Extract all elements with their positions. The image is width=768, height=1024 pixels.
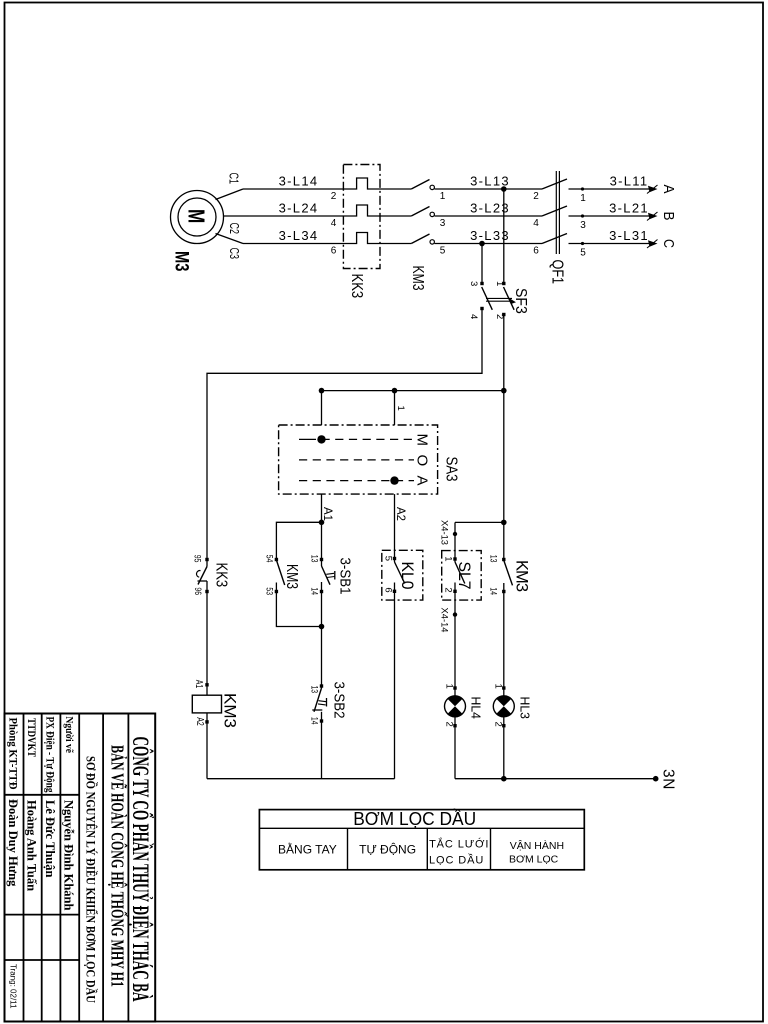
lamp HL4 pin 1 [453,686,456,689]
coil pin A2 [205,720,208,723]
svg-text:HL3: HL3 [518,697,533,719]
SF3 linkage [486,297,512,299]
node A1 [321,494,323,522]
wire C2 [224,205,412,216]
svg-text:TTDVKT: TTDVKT [25,718,39,757]
contactor KM3 pole 3 [411,234,429,244]
wire SF3 pole a to KK3 contact [207,309,482,567]
svg-text:4: 4 [468,314,479,319]
svg-text:2: 2 [442,587,453,592]
svg-text:B: B [660,212,677,221]
svg-text:2: 2 [443,722,454,727]
svg-text:3-L14: 3-L14 [279,174,319,189]
svg-text:1: 1 [440,191,446,202]
svg-text:Người vẽ: Người vẽ [63,717,75,754]
SF3 pin 2 [502,313,505,316]
wire C3 diagonal [216,234,244,244]
junction at SA3 right feed [392,388,398,394]
selector switch SA3 box [279,425,438,494]
breaker QF1 pole 1 [542,179,567,189]
legend table [259,810,584,870]
aux contact KM3 blade (right) [504,560,513,585]
svg-text:VẬN HÀNH: VẬN HÀNH [510,839,564,852]
wire 3-L34 [243,233,411,244]
svg-text:6: 6 [331,246,337,257]
breaker QF1 pole 3 [542,234,567,244]
svg-text:3-SB1: 3-SB1 [337,558,353,595]
svg-text:KK3: KK3 [348,274,365,299]
wire from 3-L33 to SF3 pole a [481,244,483,285]
motor M3 [171,191,224,244]
svg-text:95: 95 [192,555,203,563]
svg-text:M: M [414,434,431,447]
svg-text:13: 13 [487,555,498,563]
wire bus branch to SL7 [455,521,504,523]
svg-text:1: 1 [443,684,454,689]
svg-text:CÔNG TY CỔ PHẦN THUỶ ĐIỆN THÁC: CÔNG TY CỔ PHẦN THUỶ ĐIỆN THÁC BÀ [128,737,154,1002]
svg-text:Lê Đức Thuận: Lê Đức Thuận [43,800,57,877]
svg-text:PX Điện - Tự Động: PX Điện - Tự Động [44,717,56,793]
title block row lines [5,794,80,796]
svg-text:TỰ ĐỘNG: TỰ ĐỘNG [359,842,416,857]
terminal X4-14 [453,612,457,616]
svg-text:Trang: 02/11: Trang: 02/11 [9,964,18,1009]
wire junction to 3-SB2 [321,627,323,689]
svg-text:1: 1 [395,406,406,411]
svg-text:13: 13 [308,555,319,563]
svg-text:3-L31: 3-L31 [609,228,649,243]
pushbutton 3-SB2 actuator [319,701,327,702]
coil pin A1 [205,683,208,686]
svg-text:C3: C3 [227,248,241,260]
svg-text:1: 1 [442,556,453,561]
SL7 blade [455,562,465,584]
svg-text:5: 5 [382,556,393,561]
control bus top [322,390,504,392]
svg-text:KM3: KM3 [409,266,426,291]
wire KL0 to bottom bus [394,583,396,779]
svg-text:Đoàn Duy Hưng: Đoàn Duy Hưng [6,799,20,887]
svg-text:3: 3 [468,281,479,286]
contactor KM3 pole 1 [411,180,429,190]
svg-text:SƠ ĐỒ NGUYÊN LÝ ĐIỀU KHIỂN BƠM: SƠ ĐỒ NGUYÊN LÝ ĐIỀU KHIỂN BƠM LỌC DẦU [84,756,99,1003]
wire bus to SA3 left [321,391,323,425]
title block column lines [23,714,25,1022]
SA3 position row M [299,438,316,440]
svg-text:HL4: HL4 [469,697,484,719]
svg-text:A: A [414,476,431,486]
svg-text:53: 53 [263,587,274,595]
SL7 pin 1 [453,557,456,560]
SA3 position row O [299,459,414,461]
svg-text:5: 5 [580,248,586,259]
KL0 blade [395,562,405,584]
aux contact KM3 blade [276,560,284,585]
arrow phase A [648,186,658,192]
svg-text:54: 54 [263,555,274,563]
wire 3-L21 [569,215,653,217]
lamp HL3 pin 2 [502,724,505,727]
SF3 pin 1 [502,282,505,285]
svg-text:O: O [414,455,431,467]
wire 3-L13 [435,188,543,190]
coil KM3 [192,695,221,713]
lamp HL3 pin 1 [502,686,505,689]
svg-text:QF1: QF1 [549,260,566,285]
svg-text:A: A [660,185,677,194]
pushbutton 3-SB1 actuator [326,573,334,574]
terminal 5 after QF1 [581,242,584,245]
arrow phase B [648,213,658,219]
relay contact KL0 box [382,550,423,600]
svg-text:TẮC LƯỚI: TẮC LƯỚI [429,838,489,851]
wire 3-SB1 to junction [321,582,323,627]
svg-text:14: 14 [487,587,498,595]
svg-text:14: 14 [308,717,319,725]
terminal X4-13 [453,532,457,536]
terminal 1 after QF1 [581,187,584,190]
SF3 pin 3 [480,282,483,285]
svg-text:1: 1 [492,684,503,689]
svg-text:M: M [184,209,210,223]
svg-text:3-L34: 3-L34 [279,228,319,243]
wire from 3-L13 to SF3 pole b [503,189,505,284]
wire 3-L23 [435,215,543,217]
svg-text:Phòng KT-TTĐ: Phòng KT-TTĐ [7,718,19,790]
svg-text:3: 3 [580,220,586,231]
arrow phase C [648,240,658,246]
svg-text:X4-13: X4-13 [440,520,450,545]
wire 3-L14 [243,178,411,189]
wire 3-L11 [569,188,653,190]
svg-text:14: 14 [308,587,319,595]
KL0 pin 5 [393,557,396,560]
wire HL3 to bottom bus [503,717,505,779]
svg-text:1: 1 [494,281,505,286]
svg-text:A1: A1 [193,680,204,689]
svg-text:3N: 3N [660,769,677,790]
KM3 aux branch top wire [276,522,321,560]
svg-text:BƠM LỌC DẦU: BƠM LỌC DẦU [353,808,476,829]
svg-text:6: 6 [533,246,539,257]
svg-text:4: 4 [533,218,539,229]
lamp HL3 [493,696,514,717]
svg-text:KL0: KL0 [398,562,416,590]
svg-text:KM3: KM3 [513,560,531,592]
svg-text:96: 96 [192,587,203,595]
wire SL7 to X4-14 [454,583,456,697]
svg-text:3-SB2: 3-SB2 [331,682,347,719]
svg-text:Nguyễn Đình Khánh: Nguyễn Đình Khánh [62,800,76,911]
svg-text:A1: A1 [321,507,335,521]
svg-text:SA3: SA3 [443,457,460,482]
svg-text:3-L24: 3-L24 [279,201,319,216]
svg-text:C2: C2 [227,223,241,235]
aux contact KM3 pin 53 [275,590,278,593]
pushbutton 3-SB1 pin 13 [320,558,323,561]
wire bus to SA3 right (pin 1) [394,391,396,425]
aux contact KM3 pin 13 [502,558,505,561]
wire KK3 to coil [206,581,208,695]
svg-text:3: 3 [440,218,446,229]
thermal overload KK3 box [343,165,380,269]
junction at SA3 left feed [319,388,325,394]
wire coil to bottom bus [206,713,208,779]
svg-text:SF3: SF3 [512,288,529,314]
svg-text:A2: A2 [194,717,205,726]
pushbutton 3-SB2 pin 13 [320,684,323,687]
lamp HL4 pin 2 [453,724,456,727]
wire SF3 pole b down [503,315,505,391]
wire 3-SB2 to bottom bus [321,712,323,779]
svg-text:BẰNG TAY: BẰNG TAY [278,842,337,857]
svg-text:13: 13 [308,686,319,694]
pushbutton 3-SB2 pin 14 [320,719,323,722]
svg-text:LỌC DẦU: LỌC DẦU [429,854,484,867]
pushbutton 3-SB2 blade [314,688,322,712]
aux contact KM3 pin 54 [275,558,278,561]
svg-text:3-L21: 3-L21 [609,201,649,216]
SL7 pin 2 [453,590,456,593]
svg-text:KM3: KM3 [283,564,300,589]
aux contact KM3 pin 14 [502,590,505,593]
svg-text:BẢN VẼ HOÀN CÔNG HỆ THỐNG MHY: BẢN VẼ HOÀN CÔNG HỆ THỐNG MHY H1 [108,745,128,987]
wire KM3 contact to HL3 [503,583,505,696]
svg-text:2: 2 [492,722,503,727]
wire 3-L31 [569,243,653,245]
pushbutton 3-SB1 blade [322,566,331,585]
junction HL3 at bus [501,776,507,782]
svg-text:2: 2 [331,191,337,202]
breaker QF1 pole 2 [542,206,567,216]
breaker QF1 linkage [555,171,557,254]
level switch SL7 box [442,551,482,601]
svg-text:3-L11: 3-L11 [610,174,649,189]
svg-text:BƠM LỌC: BƠM LỌC [509,854,559,866]
SF3 pin 4 [480,307,483,310]
wire SF3 column down to KM3 contact [503,391,505,561]
node A2 [394,494,396,562]
switch SF3 pole a blade [482,287,493,310]
SA3 position row A [299,480,414,482]
wire 3-L33 [435,243,543,245]
svg-text:X4-14: X4-14 [440,608,450,633]
bottom bus left segment [207,778,395,780]
svg-text:SL7: SL7 [455,562,473,590]
thermal contact KK3 95-96 [205,558,208,561]
svg-text:1: 1 [580,193,586,204]
junction on 3-L33 [479,241,485,247]
svg-text:M3: M3 [171,251,192,272]
svg-text:2: 2 [533,191,539,202]
pushbutton 3-SB1 pin 14 [320,590,323,593]
title block outer border [5,714,156,1022]
svg-text:A2: A2 [394,507,408,521]
wire HL4 to bottom bus [454,717,456,779]
svg-text:C: C [660,239,677,248]
wire C1 diagonal [216,189,244,200]
wire A1 to 3-SB1 [321,522,323,566]
contactor KM3 pole 2 [411,207,429,217]
svg-text:4: 4 [331,218,337,229]
junction on 3-L13 [501,186,507,192]
bottom bus right segment (net 3N) [455,778,656,780]
terminal 3N [653,776,659,782]
lamp HL4 [445,696,466,717]
KM3 aux branch bottom wire [276,583,321,627]
svg-text:6: 6 [382,587,393,592]
svg-text:C1: C1 [227,173,241,185]
svg-text:5: 5 [440,246,446,257]
switch SF3 pole b blade [504,287,515,310]
KL0 pin 6 [393,590,396,593]
svg-text:KK3: KK3 [213,563,230,588]
terminal 3 after QF1 [581,214,584,217]
svg-text:KM3: KM3 [221,693,240,728]
junction at SF3 column [501,388,507,394]
svg-text:Hoàng Anh Tuấn: Hoàng Anh Tuấn [25,800,39,891]
